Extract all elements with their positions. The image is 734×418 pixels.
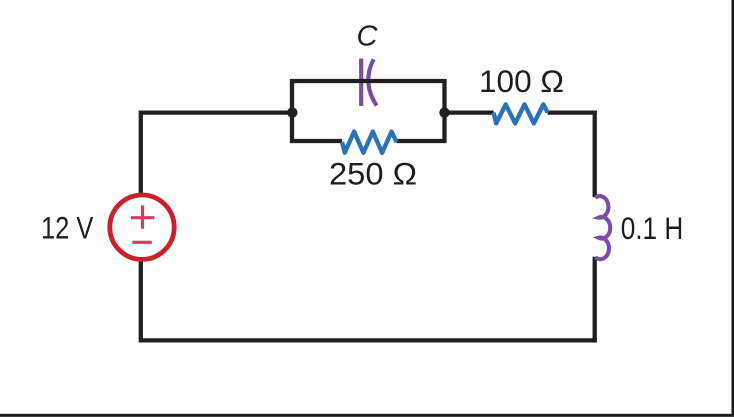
inductor 0.1 H (coil) bbox=[595, 196, 610, 259]
svg-text:100 Ω: 100 Ω bbox=[479, 63, 564, 99]
resistor 250 ohm (zigzag) bbox=[342, 132, 397, 153]
page border: right rule bbox=[732, 0, 734, 417]
svg-text:12 V: 12 V bbox=[41, 209, 93, 245]
svg-text:0.1 H: 0.1 H bbox=[621, 210, 684, 246]
wire: junction right to 100 ohm resistor bbox=[445, 110, 494, 114]
voltage source minus sign bbox=[132, 241, 152, 244]
voltage source plus sign bbox=[131, 205, 154, 228]
node A (left junction dot) bbox=[287, 107, 297, 117]
capacitor C plates bbox=[361, 59, 376, 107]
page border: bottom rule bbox=[0, 414, 734, 417]
wire: right branch upper (corner to inductor) bbox=[593, 111, 597, 198]
wire: bottom return bbox=[139, 338, 597, 342]
node B (right junction dot) bbox=[439, 107, 449, 117]
svg-text:250 Ω: 250 Ω bbox=[329, 155, 417, 191]
svg-text:C: C bbox=[357, 21, 379, 53]
wire: top from left corner to parallel block bbox=[141, 110, 292, 114]
voltage source V1 (circle) bbox=[110, 195, 174, 259]
wire: parallel block frame (left part of bottom, left edge, top edge, right edge, right part of bottom) bbox=[292, 81, 445, 141]
wire: left branch (top corner down to source, source to bottom corner) bbox=[139, 111, 143, 341]
wire: right branch lower (below inductor) bbox=[593, 257, 597, 343]
resistor 100 ohm (zigzag) bbox=[494, 104, 548, 123]
